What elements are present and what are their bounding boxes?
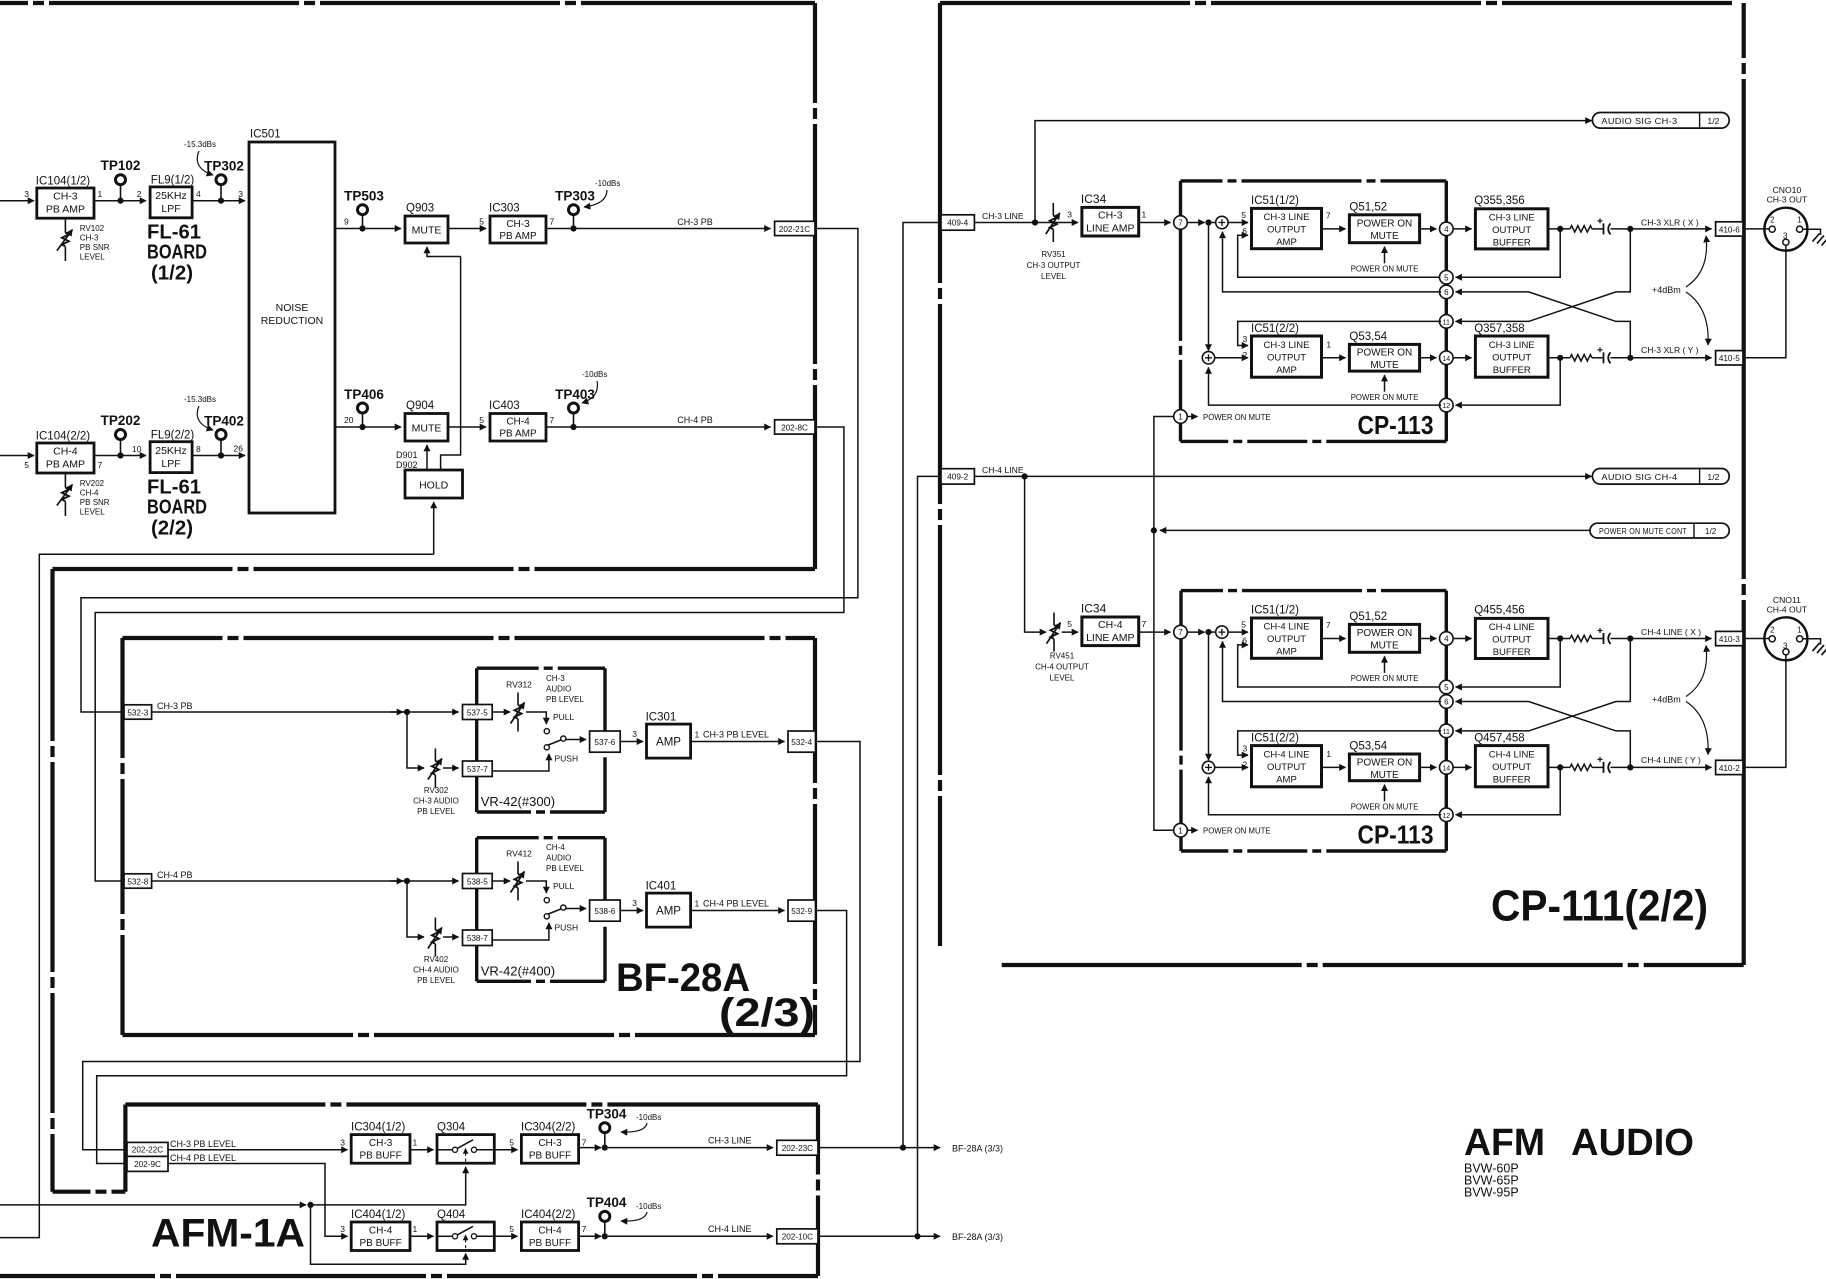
wire Q51,52 to pin 4 circle <box>1420 228 1437 230</box>
svg-text:AMP: AMP <box>656 737 681 749</box>
op-amp IC51(1/2) CH-3 LINE OUTPUT AMP <box>1252 208 1322 248</box>
test point TP402 <box>220 440 222 456</box>
filter FL9(1/2) 25KHz LPF <box>150 187 192 218</box>
svg-text:OUTPUT: OUTPUT <box>1267 634 1306 645</box>
svg-text:CH-3 OUTPUT: CH-3 OUTPUT <box>1027 261 1081 270</box>
svg-text:1/2: 1/2 <box>1707 116 1719 126</box>
op-amp IC303 CH-3 PB AMP <box>490 216 546 243</box>
svg-text:PB AMP: PB AMP <box>46 459 85 471</box>
wire IC301 to 532-4, net CH-3 PB LEVEL <box>691 741 785 743</box>
capacitor C (CH-4 Y output) <box>1592 766 1604 768</box>
svg-text:IC403: IC403 <box>489 400 520 412</box>
svg-text:CH-3 XLR ( Y ): CH-3 XLR ( Y ) <box>1641 345 1699 355</box>
connector 537-7 <box>463 761 493 777</box>
wire IC34 to CP-113 pin 7 <box>1139 222 1171 224</box>
board frame BF-28A (dash-dot border) <box>123 636 816 640</box>
svg-text:CH-4: CH-4 <box>506 417 530 428</box>
pin 12 circle on CP-113 <box>1440 398 1454 412</box>
svg-text:FL9(2/2): FL9(2/2) <box>151 429 195 441</box>
connector 410-5 <box>1716 351 1743 365</box>
svg-text:CH-3: CH-3 <box>53 191 78 203</box>
svg-text:REDUCTION: REDUCTION <box>261 315 323 327</box>
svg-text:(2/2): (2/2) <box>151 518 193 540</box>
svg-text:CH-4 LINE: CH-4 LINE <box>1264 622 1310 633</box>
svg-text:(1/2): (1/2) <box>151 263 193 285</box>
svg-text:3: 3 <box>24 189 29 199</box>
svg-text:(2/3): (2/3) <box>719 991 815 1035</box>
pin 14 circle on CP-113 <box>1440 351 1454 365</box>
pin 5 circle on lower CP-113 <box>1440 680 1454 694</box>
svg-text:-15.3dBs: -15.3dBs <box>184 140 216 149</box>
svg-text:BOARD: BOARD <box>147 497 207 519</box>
svg-text:1: 1 <box>1178 413 1183 422</box>
wire + to IC51(2/2) pin 2 (CH-4) <box>1215 766 1248 768</box>
test point TP102 <box>120 185 122 201</box>
capacitor C (CH-4 X output) <box>1592 638 1604 640</box>
buffer IC404(2/2) CH-4 PB BUFF <box>521 1222 578 1251</box>
wire IC501 pin 9 to Q903 MUTE <box>335 228 401 230</box>
svg-text:Q903: Q903 <box>406 203 434 215</box>
variable resistor RV302 CH-3 AUDIO PB LEVEL <box>434 749 436 762</box>
op-amp IC104(1/2) CH-3 PB AMP <box>37 188 94 218</box>
svg-text:MUTE: MUTE <box>412 423 442 435</box>
svg-text:CH-3: CH-3 <box>1098 210 1123 222</box>
wire Q51,52 to pin 4 circle (CH-4) <box>1420 638 1437 640</box>
connector 532-3 <box>124 705 152 719</box>
noise reduction IC501 <box>249 142 335 513</box>
wire POWER ON MUTE into pin 1 <box>1187 416 1198 418</box>
signal flag AUDIO SIG CH-4 1/2 <box>1592 469 1729 485</box>
op-amp IC403 CH-4 PB AMP <box>490 414 546 442</box>
switch PUSH contact (CH-4) <box>544 914 549 919</box>
svg-text:CH-3 PB: CH-3 PB <box>157 701 193 711</box>
wire power-on-mute riser to lower CP-113 pin 1 <box>1154 530 1175 830</box>
test point TP303 <box>573 215 575 229</box>
variable resistor RV351 CH-3 OUTPUT LEVEL <box>1052 203 1054 216</box>
op-amp IC104(2/2) CH-4 PB AMP <box>37 443 94 473</box>
svg-text:-15.3dBs: -15.3dBs <box>184 395 216 404</box>
wire FL9(1/2) to IC501 pin 3 <box>192 200 245 202</box>
svg-text:1: 1 <box>413 1138 418 1148</box>
svg-text:OUTPUT: OUTPUT <box>1267 762 1306 773</box>
svg-text:1: 1 <box>695 730 700 740</box>
svg-text:4: 4 <box>1444 635 1449 644</box>
svg-text:CH-4 LINE ( Y ): CH-4 LINE ( Y ) <box>1641 755 1701 765</box>
svg-text:PB BUFF: PB BUFF <box>359 1151 401 1162</box>
svg-text:PB AMP: PB AMP <box>46 204 85 216</box>
svg-text:5: 5 <box>1241 620 1246 630</box>
switch PULL contact (CH-4) <box>526 881 546 893</box>
variable resistor RV402 CH-4 AUDIO PB LEVEL <box>434 918 436 931</box>
svg-text:532-4: 532-4 <box>791 738 812 747</box>
svg-text:7: 7 <box>582 1138 587 1148</box>
wire 410-6 to XLR pin 2 <box>1743 228 1770 230</box>
line amp IC34 CH-4 LINE AMP <box>1062 631 1078 633</box>
svg-text:RV102: RV102 <box>80 224 105 233</box>
svg-text:AMP: AMP <box>1276 365 1297 376</box>
svg-text:CH-3 PB LEVEL: CH-3 PB LEVEL <box>170 1139 236 1149</box>
svg-text:HOLD: HOLD <box>419 480 449 492</box>
wire net CH-4 LINE riser <box>918 476 942 1236</box>
svg-text:CH-4 PB: CH-4 PB <box>677 415 713 425</box>
svg-text:Q904: Q904 <box>406 400 435 412</box>
wire FL9(2/2) to IC501 pin 26 <box>192 455 245 457</box>
wire IC403 to connector 202-8C, net CH-4 PB <box>546 426 771 428</box>
svg-text:AFM-1A: AFM-1A <box>151 1212 305 1256</box>
svg-text:3: 3 <box>1067 210 1072 220</box>
pin 11 circle on CP-113 <box>1440 315 1454 329</box>
svg-text:11: 11 <box>1443 729 1450 736</box>
connector 532-8 <box>124 874 152 888</box>
pin 1 circle on CP-113 <box>1174 410 1188 424</box>
wire RV402 to 538-7 <box>443 936 459 938</box>
svg-text:410-2: 410-2 <box>1719 764 1740 773</box>
svg-text:LEVEL: LEVEL <box>1050 674 1075 683</box>
svg-text:LPF: LPF <box>161 203 180 215</box>
svg-text:5: 5 <box>509 1224 514 1234</box>
wire XLR pin 3 to 410-2 <box>1744 655 1786 768</box>
svg-text:PB LEVEL: PB LEVEL <box>417 807 455 816</box>
feedback wire XLR Y to pin 6 (crossover) <box>1456 292 1631 358</box>
svg-text:AMP: AMP <box>1276 647 1297 658</box>
svg-text:25KHz: 25KHz <box>155 445 187 457</box>
wire IC303 to connector 202-21C, net CH-3 PB <box>546 228 771 230</box>
svg-text:FL-61: FL-61 <box>147 477 201 499</box>
signal flag POWER ON MUTE CONT 1/2 <box>1590 523 1729 538</box>
svg-text:CNO11: CNO11 <box>1773 595 1801 605</box>
svg-text:IC401: IC401 <box>646 881 677 893</box>
svg-text:Q51,52: Q51,52 <box>1349 202 1387 214</box>
svg-text:202-23C: 202-23C <box>782 1144 813 1153</box>
mute switch Q904 <box>405 414 448 442</box>
signal flag AUDIO SIG CH-3 1/2 <box>1592 113 1729 129</box>
wire IC104(2/2) to FL9(2/2) <box>94 455 146 457</box>
svg-text:NOISE: NOISE <box>276 302 309 314</box>
svg-text:Q304: Q304 <box>437 1122 466 1134</box>
svg-text:POWER ON MUTE: POWER ON MUTE <box>1351 265 1419 274</box>
wire Q903 to IC303 pin 5 <box>448 228 486 230</box>
svg-text:RV302: RV302 <box>424 786 449 795</box>
svg-text:Q457,458: Q457,458 <box>1474 733 1525 745</box>
svg-text:CH-3 OUT: CH-3 OUT <box>1767 195 1808 205</box>
svg-text:BUFFER: BUFFER <box>1493 238 1531 249</box>
svg-text:409-4: 409-4 <box>947 219 968 228</box>
pin 11 circle on lower CP-113 <box>1440 724 1454 738</box>
svg-text:POWER ON MUTE: POWER ON MUTE <box>1351 674 1419 683</box>
wire IC404(2/2) to 202-10C, net CH-4 LINE <box>579 1235 601 1237</box>
svg-text:AUDIO SIG CH-4: AUDIO SIG CH-4 <box>1601 472 1677 482</box>
svg-text:CH-4 PB: CH-4 PB <box>157 870 193 880</box>
svg-text:3: 3 <box>238 189 243 199</box>
svg-text:IC51(2/2): IC51(2/2) <box>1251 323 1299 335</box>
buffer IC304(2/2) CH-3 PB BUFF <box>521 1135 578 1164</box>
svg-text:CH-4 LINE: CH-4 LINE <box>982 465 1024 475</box>
svg-text:7: 7 <box>550 415 555 425</box>
svg-text:537-7: 537-7 <box>467 765 488 774</box>
board frame FL-61/AFM upper section (dash-dot border) <box>0 1 815 5</box>
board frame VR-42(#300) (dash-dot) <box>477 667 605 670</box>
svg-text:CH-4: CH-4 <box>80 489 99 498</box>
svg-text:IC501: IC501 <box>250 129 281 141</box>
svg-text:1/2: 1/2 <box>1707 472 1719 482</box>
connector 410-6 <box>1716 222 1743 236</box>
svg-text:Q455,456: Q455,456 <box>1474 605 1525 617</box>
pin 6 circle on lower CP-113 <box>1440 695 1454 709</box>
filter FL9(2/2) 25KHz LPF <box>150 442 192 473</box>
wire 532-3 to 537-5 <box>152 711 459 713</box>
svg-text:+4dBm: +4dBm <box>1652 695 1681 705</box>
svg-text:PUSH: PUSH <box>555 923 579 933</box>
board frame VR-42(#400) (dash-dot) <box>477 836 605 839</box>
connector 532-9 <box>788 900 816 921</box>
svg-text:1: 1 <box>1326 749 1331 759</box>
svg-text:5: 5 <box>1241 210 1246 220</box>
test point TP503 <box>362 215 364 229</box>
wire IC304(1/2) to Q304 <box>410 1149 434 1151</box>
variable resistor RV312 CH-3 AUDIO PB LEVEL (board VR-42 #300) <box>492 711 510 713</box>
wire mute control to Q903 <box>427 247 461 257</box>
svg-text:OUTPUT: OUTPUT <box>1267 225 1306 236</box>
svg-text:CH-4 PB LEVEL: CH-4 PB LEVEL <box>170 1153 236 1163</box>
wire net CH-3 LINE from 202-23C to 409-4 and BF-28A(3/3) <box>818 1147 940 1149</box>
svg-text:PULL: PULL <box>553 881 575 891</box>
svg-text:AFM: AFM <box>1464 1122 1545 1164</box>
svg-text:CH-3 PB LEVEL: CH-3 PB LEVEL <box>703 730 769 740</box>
wire 537-6 to IC301 pin 3 <box>620 741 643 743</box>
test point TP202 <box>120 440 122 456</box>
svg-text:4: 4 <box>196 189 201 199</box>
svg-text:FL9(1/2): FL9(1/2) <box>151 175 195 187</box>
wire input to IC104(1/2) pin 3 <box>0 200 34 202</box>
svg-text:PB SNR: PB SNR <box>80 243 110 252</box>
svg-text:-10dBs: -10dBs <box>636 1113 661 1122</box>
svg-text:2: 2 <box>1770 625 1775 634</box>
mute switch Q903 <box>405 216 448 243</box>
svg-text:CH-4: CH-4 <box>53 446 78 458</box>
capacitor C (CH-3 X output) <box>1592 228 1604 230</box>
svg-text:IC34: IC34 <box>1081 192 1107 206</box>
svg-text:202-8C: 202-8C <box>781 423 808 432</box>
svg-text:Q53,54: Q53,54 <box>1349 331 1387 343</box>
wire mute control to Q904 from HOLD <box>426 445 428 470</box>
wire power-on-mute control into Q53,54 (CH-4) <box>1384 785 1386 802</box>
wire junction down to RV402 <box>407 881 424 937</box>
connector 410-2 <box>1716 760 1743 774</box>
svg-text:IC301: IC301 <box>646 712 677 724</box>
svg-text:CH-4 OUTPUT: CH-4 OUTPUT <box>1035 663 1089 672</box>
svg-text:CNO10: CNO10 <box>1773 185 1802 195</box>
svg-text:FL-61: FL-61 <box>147 222 201 244</box>
svg-text:6: 6 <box>1444 288 1449 297</box>
variable resistor RV102 CH-3 PB SNR LEVEL <box>64 218 66 232</box>
svg-text:20: 20 <box>344 415 354 425</box>
mute transistors Q51,52 POWER ON MUTE (CH-4) <box>1349 624 1419 652</box>
test point TP404 <box>604 1222 606 1237</box>
svg-text:MUTE: MUTE <box>1370 231 1399 242</box>
svg-text:BUFFER: BUFFER <box>1493 365 1531 376</box>
board frame CP-113 lower (CH-4) <box>1181 589 1446 592</box>
svg-text:7: 7 <box>550 217 555 227</box>
svg-text:POWER ON: POWER ON <box>1357 757 1413 768</box>
mute transistors Q53,54 POWER ON MUTE <box>1349 344 1419 371</box>
op-amp IC51(1/2) CH-4 LINE OUTPUT AMP <box>1252 618 1322 658</box>
svg-text:OUTPUT: OUTPUT <box>1267 353 1306 364</box>
svg-text:TP503: TP503 <box>344 189 384 204</box>
svg-text:1: 1 <box>1178 826 1183 835</box>
svg-text:OUTPUT: OUTPUT <box>1492 762 1531 773</box>
hold circuit HOLD <box>405 470 463 498</box>
wire 409-2 to AUDIO SIG CH-4 flag, net CH-4 LINE <box>974 475 1591 477</box>
wire 410-3 to XLR pin 2 <box>1743 638 1770 640</box>
svg-text:VR-42(#300): VR-42(#300) <box>481 794 555 809</box>
pin 4 circle on CP-113 <box>1440 222 1454 236</box>
wire 538-6 to IC401 pin 3 <box>620 910 643 912</box>
svg-text:CH-4 LINE: CH-4 LINE <box>1489 622 1535 633</box>
svg-text:LPF: LPF <box>161 458 180 470</box>
wire power-on-mute control into Q51,52 <box>1384 247 1386 264</box>
svg-text:7: 7 <box>1178 628 1183 637</box>
wire switch pole to 537-6 <box>566 739 586 741</box>
svg-text:CH-3: CH-3 <box>80 234 99 243</box>
svg-text:IC51(2/2): IC51(2/2) <box>1251 733 1299 745</box>
svg-text:PB LEVEL: PB LEVEL <box>417 976 455 985</box>
svg-text:CH-3 LINE: CH-3 LINE <box>1264 340 1310 351</box>
svg-text:CH-4 LINE ( X ): CH-4 LINE ( X ) <box>1641 627 1701 637</box>
wire mute control Q903 riser <box>441 257 461 471</box>
svg-text:9: 9 <box>344 217 349 227</box>
svg-text:12: 12 <box>1442 403 1450 410</box>
wire main signal to lower summing node (CH-4) <box>1208 632 1210 760</box>
svg-text:IC104(2/2): IC104(2/2) <box>36 431 91 443</box>
pin 5 circle on CP-113 <box>1440 271 1454 285</box>
svg-text:Q355,356: Q355,356 <box>1474 195 1525 207</box>
svg-text:3: 3 <box>340 1138 345 1148</box>
svg-text:Q404: Q404 <box>437 1209 466 1221</box>
wire IC104(1/2) to FL9(1/2) <box>94 200 146 202</box>
svg-text:BOARD: BOARD <box>147 242 207 264</box>
svg-text:POWER ON: POWER ON <box>1357 628 1413 639</box>
wire CH-4 LINE down to IC34 <box>1025 476 1046 632</box>
connector 409-2 <box>941 469 974 484</box>
svg-text:RV202: RV202 <box>80 479 105 488</box>
svg-text:4: 4 <box>1444 225 1449 234</box>
svg-text:2: 2 <box>1770 216 1775 225</box>
svg-text:TP404: TP404 <box>587 1195 627 1210</box>
wire XLR pin 1 to ground <box>1803 639 1821 645</box>
wire 202-9C to IC404(1/2) pin 3 <box>168 1164 348 1237</box>
feedback wire pin 6 circle to summing node (CH-4) <box>1223 641 1442 701</box>
svg-text:CH-3 LINE: CH-3 LINE <box>1489 213 1535 224</box>
wire CH-3 LINE to AUDIO SIG CH-3 flag <box>1035 121 1592 223</box>
wire power-on-mute control into Q51,52 (CH-4) <box>1384 656 1386 673</box>
svg-text:5: 5 <box>1067 619 1072 629</box>
feedback wire XLR X to pin 11 (crossover) <box>1456 229 1631 322</box>
wire power-on-mute control into Q53,54 <box>1384 375 1386 392</box>
wire XLR pin 1 to ground <box>1803 229 1821 235</box>
svg-text:+4dBm: +4dBm <box>1652 285 1681 295</box>
wire IC404(1/2) to Q404 <box>410 1235 434 1237</box>
svg-text:538-6: 538-6 <box>594 907 615 916</box>
svg-text:7: 7 <box>98 460 103 470</box>
svg-text:CH-4 AUDIO: CH-4 AUDIO <box>413 966 459 975</box>
feedback wire pin 11 circle to IC51(2/2) pin 3 <box>1238 321 1441 345</box>
wire Q404 to IC404(2/2) pin 5 <box>494 1235 517 1237</box>
wire pin 14 to Q457,458 buffer <box>1453 766 1472 768</box>
svg-text:TP102: TP102 <box>101 158 141 173</box>
summing node + (CH-4 X) <box>1216 626 1228 638</box>
wire input to IC104(2/2) pin 5 <box>0 455 34 457</box>
svg-text:AUDIO: AUDIO <box>546 685 571 694</box>
amplifier IC301 AMP <box>647 724 691 758</box>
svg-text:7: 7 <box>582 1224 587 1234</box>
svg-text:-10dBs: -10dBs <box>595 179 620 188</box>
svg-text:202-9C: 202-9C <box>134 1160 161 1169</box>
wire Q53,54 to pin 14 circle (CH-4) <box>1420 766 1437 768</box>
wire + to IC51(1/2) pin 5 (CH-4) <box>1228 631 1248 633</box>
connector CNO11 CH-4 OUT (XLR) <box>1764 617 1807 660</box>
svg-text:TP202: TP202 <box>101 413 141 428</box>
svg-text:409-2: 409-2 <box>947 472 968 481</box>
wire hold control rail <box>0 554 434 1237</box>
svg-text:CH-4 OUT: CH-4 OUT <box>1767 604 1808 614</box>
feedback wire buffer Y to pin 12 circle (CH-4) <box>1456 767 1561 814</box>
svg-text:CH-3 LINE: CH-3 LINE <box>1264 212 1310 223</box>
svg-text:14: 14 <box>1442 356 1450 363</box>
svg-text:PB SNR: PB SNR <box>80 498 110 507</box>
svg-text:6: 6 <box>1444 698 1449 707</box>
wire 532-8 to 538-5 <box>152 880 459 882</box>
svg-text:6: 6 <box>1242 636 1247 646</box>
svg-text:POWER ON: POWER ON <box>1357 348 1413 359</box>
svg-text:TP302: TP302 <box>204 159 244 174</box>
pin 14 circle on lower CP-113 <box>1440 761 1454 775</box>
pin 7 circle on lower CP-113 <box>1174 625 1188 639</box>
wire net CH-3 PB from 202-21C to 532-3 <box>81 229 858 713</box>
connector 202-22C <box>127 1142 168 1156</box>
wire + to IC51(1/2) pin 5 <box>1228 222 1248 224</box>
svg-text:CH-3 AUDIO: CH-3 AUDIO <box>413 797 459 806</box>
svg-text:CH-3 XLR ( X ): CH-3 XLR ( X ) <box>1641 218 1699 228</box>
buffer IC304(1/2) CH-3 PB BUFF <box>351 1135 410 1164</box>
capacitor C (CH-3 Y output) <box>1592 357 1604 359</box>
amplifier IC401 AMP <box>647 893 691 927</box>
svg-text:12: 12 <box>1442 813 1450 820</box>
svg-text:RV351: RV351 <box>1041 250 1066 259</box>
variable resistor RV202 CH-4 PB SNR LEVEL <box>64 473 66 488</box>
svg-text:5: 5 <box>479 217 484 227</box>
pin 1 circle on lower CP-113 <box>1174 823 1188 837</box>
svg-text:CH-4 LINE: CH-4 LINE <box>708 1224 752 1234</box>
svg-text:CH-3 LINE: CH-3 LINE <box>982 211 1024 221</box>
mute transistors Q53,54 POWER ON MUTE (CH-4) <box>1349 754 1419 781</box>
svg-text:1: 1 <box>1797 216 1802 225</box>
wire pin 14 to Q357,358 buffer <box>1453 357 1472 359</box>
ground (CH-3 out) <box>1813 234 1826 246</box>
svg-text:CP-111(2/2): CP-111(2/2) <box>1491 882 1708 931</box>
op-amp IC51(2/2) CH-3 LINE OUTPUT AMP <box>1252 336 1322 377</box>
svg-text:D901: D901 <box>396 450 418 460</box>
wire IC401 to 532-9, net CH-4 PB LEVEL <box>691 910 785 912</box>
svg-text:CP-113: CP-113 <box>1358 820 1434 850</box>
svg-text:IC404(2/2): IC404(2/2) <box>521 1209 576 1221</box>
feedback wire pin 5 circle to IC51(1/2) pin 6 <box>1238 235 1441 277</box>
wire IC51(2/2) to Q53,54 (CH-4) <box>1322 766 1346 768</box>
resistor R (CH-4 Y output) <box>1570 764 1592 770</box>
svg-text:OUTPUT: OUTPUT <box>1492 635 1531 646</box>
summing node + (CH-3 Y) <box>1202 352 1214 364</box>
pin 6 circle on CP-113 <box>1440 285 1454 299</box>
svg-text:POWER ON MUTE: POWER ON MUTE <box>1351 803 1419 812</box>
